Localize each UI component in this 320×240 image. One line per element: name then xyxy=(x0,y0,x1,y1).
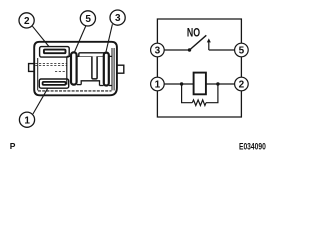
svg-text:2: 2 xyxy=(24,16,30,27)
svg-text:5: 5 xyxy=(239,46,245,57)
svg-text:NO: NO xyxy=(187,28,200,40)
svg-text:2: 2 xyxy=(239,80,245,91)
svg-text:P: P xyxy=(10,141,16,151)
svg-text:3: 3 xyxy=(155,46,161,57)
svg-text:1: 1 xyxy=(155,80,161,91)
svg-text:3: 3 xyxy=(115,13,121,24)
svg-text:1: 1 xyxy=(24,115,30,126)
svg-text:5: 5 xyxy=(85,14,91,25)
svg-text:E034090: E034090 xyxy=(239,141,266,151)
